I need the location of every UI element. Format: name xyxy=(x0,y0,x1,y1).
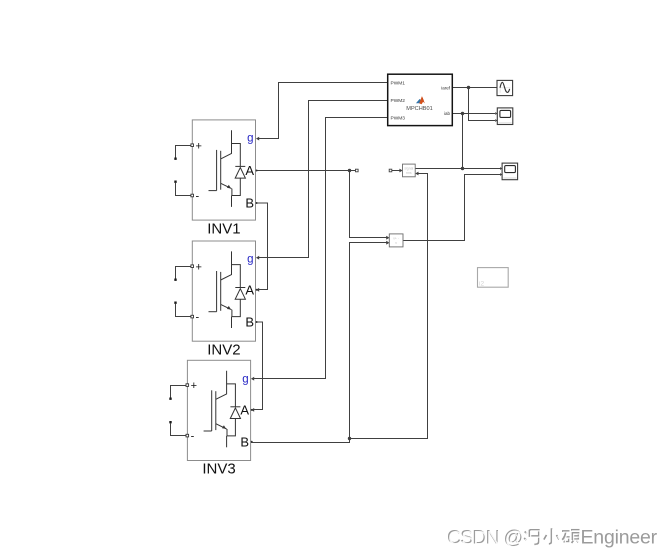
svg-text:A: A xyxy=(245,163,254,178)
svg-text:B: B xyxy=(245,315,254,330)
wire PWM3 net: MPCHB01.PWM3 to INV3.g xyxy=(253,118,388,379)
svg-text:Engineer: Engineer xyxy=(581,527,658,549)
IGBT/diode icon INV1 xyxy=(209,130,246,207)
arrowhead into VM1 input1 xyxy=(386,236,389,240)
svg-text:-: - xyxy=(196,312,200,324)
wire VM1 output to Scope2 input2 xyxy=(403,175,500,241)
MATLAB Function block U1 MPCHB01 xyxy=(388,74,453,125)
scope block Scope1 xyxy=(497,108,513,125)
svg-text:iaref: iaref xyxy=(441,85,451,90)
svg-text:-: - xyxy=(196,191,200,203)
wire node B3: INV3.B up to VM1 input 2 xyxy=(251,243,388,443)
arrowhead into INV2.A xyxy=(256,288,259,292)
inverter block INV1 xyxy=(191,120,258,237)
svg-text:A: A xyxy=(240,402,249,417)
svg-text:-: - xyxy=(191,431,195,443)
watermark char feng xyxy=(524,530,539,545)
port square plus INV1 xyxy=(191,144,194,147)
dangling end dot INV3 plus xyxy=(169,398,171,400)
IGBT/diode icon INV2 xyxy=(209,251,246,328)
MATLAB membrane logo xyxy=(416,96,425,104)
port square minus INV2 xyxy=(191,315,194,318)
wire INV2.B to INV3.A xyxy=(253,322,263,410)
junction iab lower xyxy=(461,167,464,170)
current measurement block CM1 xyxy=(403,164,416,177)
svg-text:v+ -: v+ - xyxy=(393,237,399,241)
watermark emboss highlight xyxy=(448,528,580,550)
svg-text:g: g xyxy=(247,254,253,266)
port nub A INV3 xyxy=(251,409,253,411)
svg-text:@: @ xyxy=(505,528,525,550)
scope block Scope2 xyxy=(502,163,517,180)
wire INV1 plus stub xyxy=(176,146,193,158)
port nub B INV3 xyxy=(251,441,253,443)
inverter block INV2 xyxy=(191,241,258,358)
svg-text:B: B xyxy=(245,196,254,211)
arrowhead into Scope1 input2 xyxy=(495,119,497,122)
svg-text:+: + xyxy=(196,140,202,152)
arrowhead into CM1 right input xyxy=(415,172,418,176)
svg-text:g: g xyxy=(242,374,248,386)
svg-text:INV3: INV3 xyxy=(202,461,235,478)
svg-text:+: + xyxy=(191,380,197,392)
svg-text:INV2: INV2 xyxy=(207,341,240,358)
empty annotation box xyxy=(478,268,509,288)
arrowhead into INV1.g xyxy=(256,137,259,141)
arrowhead into Scope2 input2 xyxy=(500,173,502,176)
svg-text:PWM2: PWM2 xyxy=(391,98,406,104)
arrowhead into INV3.A xyxy=(251,408,254,412)
dangling end dot INV2 plus xyxy=(174,279,176,281)
svg-text:i2: i2 xyxy=(479,281,484,288)
port square plus INV2 xyxy=(191,265,194,268)
wire INV2 plus stub xyxy=(176,267,193,279)
dangling end dot INV2 minus xyxy=(174,302,176,304)
svg-text:g: g xyxy=(247,133,253,145)
wire INV3 minus stub xyxy=(171,424,188,436)
watermark char xiao xyxy=(544,528,559,544)
wire unconnected stub into CM1 left input xyxy=(392,170,401,172)
wire PWM2 net: MPCHB01.PWM2 to INV2.g xyxy=(258,101,388,258)
wire INV3 plus stub xyxy=(171,386,188,398)
IGBT/diode icon INV3 xyxy=(204,371,241,448)
svg-text:B: B xyxy=(240,434,249,449)
dangling end dot INV1 plus xyxy=(174,158,176,160)
inverter block INV3 xyxy=(186,360,253,477)
svg-text:PWM1: PWM1 xyxy=(391,80,406,86)
svg-text:v: v xyxy=(395,241,397,245)
sine wave source xyxy=(497,80,513,95)
wire branch node B3 to CM1 lower-right input xyxy=(350,174,428,439)
port square minus INV3 xyxy=(186,434,189,437)
wire INV2 minus stub xyxy=(176,304,193,317)
junction iaref xyxy=(467,86,470,89)
voltage measurement block VM1 xyxy=(389,234,403,247)
arrowhead into INV3.g xyxy=(251,377,254,381)
svg-text:rms: rms xyxy=(406,171,412,175)
junction node A xyxy=(348,169,351,172)
watermark char shuo xyxy=(562,530,580,543)
unconnected end square on node A stub xyxy=(356,169,359,172)
arrowhead into Scope1 input1 xyxy=(495,112,497,115)
svg-text:signal: signal xyxy=(404,167,413,171)
unconnected end square of CM1 stub xyxy=(389,169,392,172)
svg-text:A: A xyxy=(245,282,254,297)
junction iab upper xyxy=(461,112,464,115)
svg-text:MPCHB01: MPCHB01 xyxy=(406,106,432,112)
dangling end dot INV3 minus xyxy=(169,421,171,423)
arrowhead into INV2.g xyxy=(256,256,259,260)
svg-text:CSDN: CSDN xyxy=(448,528,500,550)
arrowhead into VM1 input2 xyxy=(386,241,389,245)
wire PWM1 net: MPCHB01.PWM1 to INV1.g xyxy=(258,83,388,139)
dangling end dot INV1 minus xyxy=(174,181,176,183)
wire INV1.B to INV2.A xyxy=(256,203,268,290)
junction node B3 xyxy=(348,437,351,440)
svg-text:+: + xyxy=(196,261,202,273)
port nub B INV2 xyxy=(256,321,258,323)
svg-text:INV1: INV1 xyxy=(207,220,240,237)
wire node A: INV1.A to stub end and down to VM1 input 1 xyxy=(256,171,388,238)
port nub B INV1 xyxy=(256,202,258,204)
wire iaref net: sine source to MPCHB01.iaref with branch to Scope1 input2 xyxy=(453,88,498,121)
arrowhead into Scope2 input1 xyxy=(500,167,502,170)
wire INV1 minus stub xyxy=(176,183,193,196)
wire iab net: MPCHB01.iab to Scope1 input1 and down to Scope2 input1 xyxy=(415,114,500,169)
port nub A INV1 xyxy=(256,170,258,172)
port square minus INV1 xyxy=(191,194,194,197)
watermark CSDN xyxy=(447,527,658,550)
svg-text:PWM3: PWM3 xyxy=(391,115,406,121)
svg-text:iab: iab xyxy=(444,111,451,116)
port square plus INV3 xyxy=(186,384,189,387)
port nub A INV2 xyxy=(256,289,258,291)
arrowhead into CM1 left input xyxy=(399,169,402,173)
